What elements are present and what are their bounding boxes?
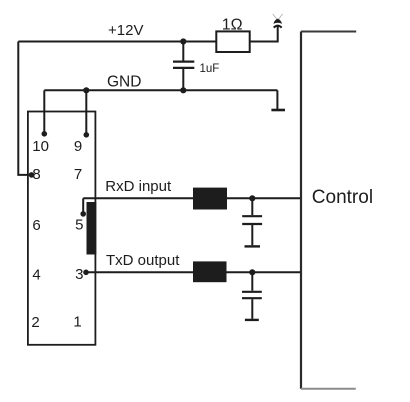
capacitor C2	[242, 198, 262, 245]
svg-text:5: 5	[75, 216, 83, 233]
pin 8 dot	[29, 172, 35, 178]
wire: TxD line	[86, 271, 301, 273]
svg-text:10: 10	[32, 138, 49, 155]
svg-text:7: 7	[74, 166, 82, 183]
supply arrow symbol	[273, 14, 283, 28]
ferrite bead FB1 on RxD	[193, 188, 227, 210]
wire: GND to pin 9	[85, 90, 87, 135]
capacitor C2 end bar	[245, 245, 261, 247]
wire: GND rail	[44, 89, 277, 91]
pin 9 dot	[84, 132, 90, 138]
junction dot: +12V / C1	[180, 38, 186, 44]
svg-text:3: 3	[75, 266, 83, 283]
junction dot: GND branch to pin 9	[83, 87, 89, 93]
pin 3 dot	[83, 270, 89, 276]
svg-text:6: 6	[32, 217, 40, 234]
ground symbol	[271, 109, 285, 112]
connector J1 body	[28, 112, 96, 345]
pin 10 dot	[42, 131, 48, 137]
wire: resistor to supply arrow	[250, 26, 278, 42]
pin 5 dot	[80, 211, 86, 217]
svg-text:4: 4	[32, 266, 40, 283]
ferrite bead FB2 on TxD	[193, 261, 227, 282]
svg-text:TxD output: TxD output	[106, 252, 180, 269]
svg-text:9: 9	[74, 138, 82, 155]
svg-text:1: 1	[73, 314, 81, 331]
control box bottom edge	[301, 388, 356, 390]
wire: RxD line	[83, 197, 301, 199]
svg-text:RxD input: RxD input	[105, 178, 172, 195]
control box top edge	[301, 31, 356, 33]
control box left edge	[300, 32, 302, 389]
svg-text:1Ω: 1Ω	[222, 17, 243, 34]
capacitor C3 end bar	[245, 319, 259, 321]
svg-text:1uF: 1uF	[200, 63, 220, 75]
svg-text:Control: Control	[312, 187, 373, 208]
junction dot: GND / C1	[180, 87, 186, 93]
resistor R1 1 ohm	[216, 31, 249, 52]
wire: left branch from +12V rail down to pin 8	[18, 42, 31, 175]
svg-text:2: 2	[31, 314, 39, 331]
capacitor C3	[242, 272, 262, 319]
capacitor C1 1uF	[173, 42, 194, 91]
svg-text:GND: GND	[107, 73, 141, 90]
svg-text:+12V: +12V	[108, 22, 143, 39]
junction dot: TxD / C3	[249, 269, 255, 275]
wire: +12V rail	[18, 41, 216, 43]
junction dot: RxD / C2	[249, 195, 255, 201]
wire: pin 5 stub up to RxD line	[82, 198, 84, 214]
wire: GND to pin 10	[43, 90, 45, 134]
wire: GND to ground symbol	[276, 90, 278, 109]
connector key bar	[87, 202, 97, 255]
